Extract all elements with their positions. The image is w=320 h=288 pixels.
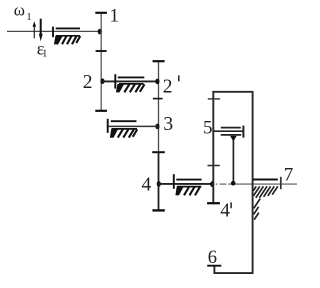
junction blob gear 5 stem / axis — [231, 181, 236, 186]
svg-text:4: 4 — [142, 175, 152, 196]
svg-text:1: 1 — [26, 11, 32, 23]
mesh tick gears 1-2 — [96, 50, 107, 52]
svg-text:1: 1 — [110, 6, 120, 27]
junction dot shaft I / gear 1 — [98, 29, 102, 35]
svg-text:1: 1 — [42, 48, 48, 60]
junction dot gear 4' / shaft IV — [210, 181, 214, 187]
gear 2 bottom rim tick — [95, 110, 107, 112]
svg-text:2: 2 — [83, 72, 93, 93]
gear 7 rim tick — [280, 177, 282, 189]
junction dot gear 2' / shaft II — [155, 79, 159, 85]
bearing B on shaft II (fixed support) — [115, 74, 144, 92]
junction dot gear 3 / shaft III — [155, 124, 159, 130]
gear 1 top rim tick — [95, 12, 107, 14]
junction dot gear 4 / shaft IV — [157, 181, 161, 187]
gear 1 / gear 2 line (vertical) — [100, 13, 102, 111]
gear 5 (planet pinion on carrier) — [213, 126, 243, 138]
axis centerline shafts IV-VII (dash-dot then solid) — [216, 183, 218, 185]
epsilon1 arrow (angular acceleration, down) — [39, 19, 43, 42]
gear 2' top rim tick — [153, 60, 165, 62]
mesh tick gears 3-4 — [152, 151, 165, 153]
carrier frame (gear 4' line + frame to gear 6) — [213, 92, 252, 273]
shaft I (input shaft, horizontal) — [7, 30, 100, 32]
svg-text:7: 7 — [284, 165, 294, 186]
bevel mesh triangle under gear 5 — [230, 136, 237, 142]
shaft III (horizontal) — [108, 125, 159, 127]
junction dot gear 2 / shaft II — [100, 78, 104, 84]
mesh tick gear 4' lower — [208, 165, 220, 167]
svg-text:ω: ω — [14, 0, 25, 19]
gear 4' bottom rim tick — [207, 202, 220, 204]
svg-text:3: 3 — [163, 114, 173, 135]
bearing A on shaft I (fixed support) — [53, 27, 80, 45]
ground hatching of fixed gear 7 — [253, 186, 277, 219]
mesh tick gears 2'-3 — [153, 98, 163, 100]
gear 4 line (vertical, lower) — [158, 152, 160, 210]
svg-text:6: 6 — [208, 248, 217, 268]
gear 2' / gear 3 line (vertical, upper) — [158, 61, 160, 152]
mesh tick gear 4' top — [208, 98, 220, 100]
svg-text:5: 5 — [203, 118, 213, 139]
svg-text:4: 4 — [220, 200, 230, 221]
omega1 arrow (angular velocity, up) — [33, 21, 37, 38]
shaft IV (horizontal) — [159, 183, 214, 185]
shaft II (horizontal) — [101, 80, 158, 82]
gear 4 bottom rim tick — [152, 209, 164, 211]
gear 7 (fixed bevel gear) top line — [253, 179, 278, 181]
svg-text:2: 2 — [163, 77, 173, 98]
bearing C on shaft III (fixed support) — [108, 119, 138, 138]
bearing D on shaft IV (fixed support) — [174, 174, 202, 195]
gear 6 rim tick — [207, 265, 221, 267]
gear 5 stem (vertical) — [232, 140, 234, 183]
